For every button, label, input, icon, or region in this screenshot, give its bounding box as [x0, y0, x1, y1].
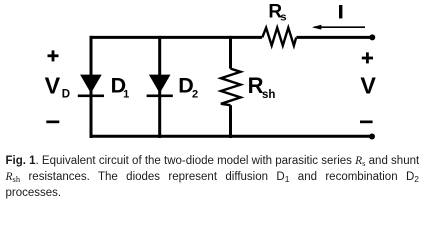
wire top left segment: [90, 36, 263, 39]
label plus right: [362, 52, 373, 63]
label V_D: [45, 73, 71, 101]
svg-text:V: V: [360, 72, 376, 98]
svg-text:sh: sh: [262, 89, 275, 101]
label R_sh: [248, 73, 276, 101]
svg-text:s: s: [280, 12, 286, 24]
wire bottom: [90, 135, 373, 138]
figure caption: [6, 153, 420, 201]
node bottom terminal: [369, 134, 375, 140]
wire left branch: [90, 36, 93, 138]
label minus left: [46, 121, 59, 124]
svg-text:D: D: [62, 88, 70, 100]
diode D2: [147, 75, 173, 98]
label minus right: [360, 121, 373, 124]
wire top right segment: [296, 36, 372, 39]
diode D1: [78, 75, 104, 98]
resistor R_sh: [221, 69, 241, 106]
label I: [339, 5, 342, 18]
label plus left: [48, 50, 59, 61]
node top terminal: [369, 34, 375, 40]
svg-text:V: V: [45, 73, 61, 99]
label R_s: [268, 2, 286, 24]
wire D2 branch: [158, 36, 161, 138]
label D2: [178, 73, 198, 100]
wire R_sh branch bottom: [229, 105, 232, 138]
svg-text:1: 1: [123, 89, 129, 101]
wire R_sh branch top: [229, 36, 232, 69]
svg-text:2: 2: [192, 89, 198, 101]
resistor R_s: [262, 28, 296, 46]
current arrow I: [312, 25, 365, 30]
label D1: [111, 73, 130, 100]
